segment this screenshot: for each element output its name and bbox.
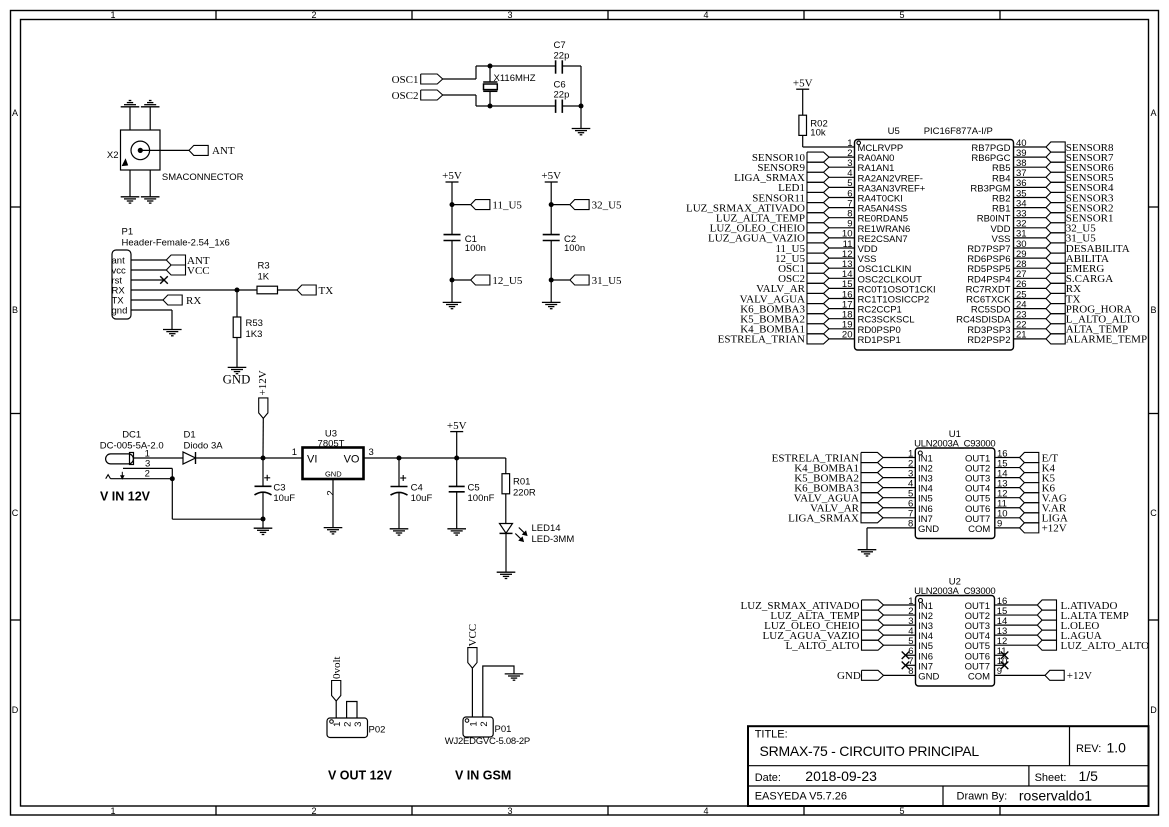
wire P1 ant xyxy=(131,259,166,261)
ground C3 xyxy=(254,528,273,534)
wire P02 pins 2-3 loop xyxy=(347,702,357,719)
port flag VALV_AR (U1 pin 6) xyxy=(810,503,883,515)
title text SRMAX-75 - CIRCUITO PRINCIPAL xyxy=(760,743,980,759)
wire node to R01 xyxy=(457,458,506,474)
U5 title xyxy=(888,126,993,137)
wire U1 pin 1 xyxy=(883,457,915,459)
wire U5 pin 14 xyxy=(829,277,855,279)
svg-text:LIGA_SRMAX: LIGA_SRMAX xyxy=(788,513,859,525)
port flag ABILITA (U5 pin 29) xyxy=(1046,253,1109,265)
wire P1 TX pin xyxy=(131,299,163,301)
port flag L.ALTA TEMP (U2 pin 15) xyxy=(1037,610,1128,622)
wire bottom rail xyxy=(476,105,556,107)
svg-text:10k: 10k xyxy=(810,128,826,139)
wire +5V to node (C1) xyxy=(451,182,453,205)
svg-text:R01: R01 xyxy=(513,476,530,487)
wire U1 pin 7 xyxy=(883,517,915,519)
node C1 bottom xyxy=(450,278,455,283)
svg-text:TITLE:: TITLE: xyxy=(755,729,788,741)
ground GND net flag xyxy=(223,367,251,386)
svg-text:L_ALTO_ALTO: L_ALTO_ALTO xyxy=(786,640,860,652)
wire node to flag 11_U5 xyxy=(452,204,471,206)
power flag +12V (U2 pin 9) xyxy=(1045,670,1092,682)
wire U1 pin 13 xyxy=(995,487,1020,489)
wire U1 pin 2 xyxy=(883,467,915,469)
svg-text:2: 2 xyxy=(325,490,336,495)
wire C4 top xyxy=(398,458,400,487)
wire DC1 pin2 xyxy=(111,478,173,480)
svg-text:REV:: REV: xyxy=(1076,743,1101,755)
wire node to flag 12_U5 xyxy=(452,279,471,281)
node C2 bottom xyxy=(549,278,554,283)
wire U1 pin 11 xyxy=(995,507,1020,509)
wire +5V to R02 xyxy=(802,89,804,115)
svg-text:+5V: +5V xyxy=(541,170,561,182)
svg-text:5: 5 xyxy=(899,806,904,816)
wire U5 pin 13 xyxy=(829,267,855,269)
no-connect X on U2 pin 11 xyxy=(1001,651,1009,659)
svg-text:A: A xyxy=(1150,108,1156,118)
port flag 32_U5 xyxy=(570,199,622,211)
connector P02 body xyxy=(327,718,385,738)
port flag V.AG (U1 pin 12) xyxy=(1020,493,1067,505)
crystal X1 16MHZ xyxy=(483,66,536,106)
svg-text:2: 2 xyxy=(311,806,316,816)
svg-text:1: 1 xyxy=(110,806,115,816)
wire C4 to C5 node xyxy=(399,457,457,459)
svg-text:OSC1: OSC1 xyxy=(392,74,419,86)
svg-text:PIC16F877A-I/P: PIC16F877A-I/P xyxy=(924,126,993,137)
port flag LUZ_OLEO_CHEIO (U2 pin 3) xyxy=(764,620,883,632)
wire U1 pin 15 xyxy=(995,467,1020,469)
Sheet cell xyxy=(1035,768,1099,784)
svg-text:roservaldo1: roservaldo1 xyxy=(1019,787,1092,803)
svg-text:31_U5: 31_U5 xyxy=(592,275,622,287)
svg-text:2: 2 xyxy=(145,468,150,479)
svg-text:+5V: +5V xyxy=(447,420,467,432)
wire P1 gnd xyxy=(131,310,172,329)
node C5 top xyxy=(454,456,459,461)
svg-text:DC-005-5A-2.0: DC-005-5A-2.0 xyxy=(100,440,164,451)
wire C1 top xyxy=(451,205,453,235)
P01 part number xyxy=(445,736,530,747)
wire OSC2 to bottom rail xyxy=(443,95,476,106)
capacitor C3 (polarized) xyxy=(255,475,296,504)
svg-text:Sheet:: Sheet: xyxy=(1035,772,1067,784)
wire bottom return xyxy=(172,518,263,520)
U1 pin numbers xyxy=(908,448,1008,529)
wire U5 pin 11 xyxy=(829,247,855,249)
port flag SENSOR1 (U5 pin 33) xyxy=(1046,213,1113,225)
svg-text:RX: RX xyxy=(186,295,201,307)
svg-text:1: 1 xyxy=(468,721,479,726)
wire U2 pin 3 xyxy=(884,624,916,626)
svg-text:Header-Female-2.54_1x6: Header-Female-2.54_1x6 xyxy=(122,238,230,249)
node C6 right xyxy=(579,104,584,109)
wire U5 pin 32 xyxy=(1014,227,1047,229)
svg-text:GND: GND xyxy=(918,524,939,535)
wire U5 pin 12 xyxy=(829,257,855,259)
port flag ESTRELA_TRIAN (U5 pin 20) xyxy=(718,334,829,346)
wire +5V to node (C2) xyxy=(550,182,552,205)
wire U2 pin 5 xyxy=(884,644,916,646)
wire node to U3 xyxy=(263,457,303,459)
wire U2 pin 9 xyxy=(995,674,1046,676)
svg-text:gnd: gnd xyxy=(112,306,128,317)
V IN 12V text xyxy=(100,490,151,504)
svg-text:Date:: Date: xyxy=(755,772,781,784)
wire right vertical xyxy=(580,66,582,129)
ground U1 xyxy=(858,550,877,556)
power flag 0volt xyxy=(331,656,343,701)
port flag +12V (U1 pin 9) xyxy=(1020,523,1067,535)
wire U5 pin 16 xyxy=(829,298,855,300)
wire U5 pin 29 xyxy=(1014,257,1047,259)
node C4 top xyxy=(397,456,402,461)
svg-text:RD2PSP2: RD2PSP2 xyxy=(967,335,1010,346)
port flag 11_U5 xyxy=(471,199,523,211)
LED14 arrows xyxy=(515,528,527,542)
resistor R02 xyxy=(799,115,828,139)
wire R02 to U5 pin 1 xyxy=(803,136,855,148)
U3 pin1 number xyxy=(292,447,297,458)
wire U1 pin 12 xyxy=(995,497,1020,499)
svg-text:VI: VI xyxy=(307,454,317,466)
node DC1 pin2 junction xyxy=(170,476,175,481)
connector DC1 labels xyxy=(100,429,164,451)
wire OSC1 to top rail xyxy=(443,66,476,79)
wire U5 pin 15 xyxy=(829,287,855,289)
wire U1 pin 9 xyxy=(995,527,1020,529)
wire U5 pin 2 xyxy=(829,156,855,158)
connector P01 body xyxy=(463,717,511,737)
svg-text:22p: 22p xyxy=(554,51,570,62)
wire U2 pin 12 xyxy=(995,644,1038,646)
wire U5 pin 39 xyxy=(1014,156,1047,158)
wire P01 pin1 xyxy=(471,668,473,717)
ground crystal xyxy=(572,129,591,135)
svg-text:3: 3 xyxy=(369,447,374,458)
wire U5 pin 38 xyxy=(1014,166,1047,168)
wire U5 pin 31 xyxy=(1014,237,1047,239)
port flag 32_U5 (U5 pin 32) xyxy=(1046,223,1096,235)
wire U5 pin 10 xyxy=(829,237,855,239)
wire U2 pin 14 xyxy=(995,624,1038,626)
svg-text:12_U5: 12_U5 xyxy=(492,275,522,287)
svg-text:GND: GND xyxy=(918,671,939,682)
svg-text:1K3: 1K3 xyxy=(246,329,263,340)
wire U2 pin 13 xyxy=(995,634,1038,636)
resistor R01 xyxy=(502,474,536,499)
wire node to flag 32_U5 xyxy=(551,204,570,206)
svg-text:1K: 1K xyxy=(258,271,270,282)
port flag OSC1 xyxy=(392,74,443,86)
V IN GSM text xyxy=(455,769,511,783)
svg-text:GND: GND xyxy=(837,670,861,682)
wire U5 pin 21 xyxy=(1014,338,1047,340)
ground P01 xyxy=(505,674,524,680)
svg-text:3: 3 xyxy=(507,10,512,20)
svg-text:C: C xyxy=(1150,508,1157,518)
svg-text:D: D xyxy=(12,705,19,715)
port flag ALARME_TEMP (U5 pin 21) xyxy=(1046,334,1147,346)
svg-text:2: 2 xyxy=(311,10,316,20)
port flag L.AGUA (U2 pin 13) xyxy=(1037,630,1102,642)
wire DC1 pin1 to D1 xyxy=(133,457,183,459)
wire U2 pin 15 xyxy=(995,614,1038,616)
port flag SENSOR2 (U5 pin 34) xyxy=(1046,202,1113,214)
wire U5 pin 17 xyxy=(829,308,855,310)
wire U5 pin 20 xyxy=(829,338,855,340)
port flag ESTRELA_TRIAN (U1 pin 1) xyxy=(772,452,883,464)
svg-text:+12V: +12V xyxy=(1067,670,1092,682)
svg-text:ESTRELA_TRIAN: ESTRELA_TRIAN xyxy=(718,334,805,346)
port flag S.CARGA (U5 pin 27) xyxy=(1046,273,1113,285)
port flag K6 (U1 pin 13) xyxy=(1020,482,1056,494)
wire P1 vcc xyxy=(131,269,166,271)
wire U2 pin 10 stub xyxy=(995,664,1005,666)
svg-text:A: A xyxy=(12,108,18,118)
wire D1 to node xyxy=(196,457,264,459)
port flag SENSOR4 (U5 pin 36) xyxy=(1046,182,1114,194)
ground LED14 xyxy=(497,572,516,578)
U1 title xyxy=(914,429,995,450)
wire DC1 pin2-3 down xyxy=(171,468,173,519)
node RX junction xyxy=(235,288,240,293)
svg-text:GND: GND xyxy=(223,373,251,387)
port flag LED1 (U5 pin 5) xyxy=(778,182,829,194)
svg-text:100n: 100n xyxy=(564,243,585,254)
port flag K4_BOMBA1 (U5 pin 19) xyxy=(740,324,829,336)
port flag RX (U5 pin 26) xyxy=(1046,283,1081,295)
wire U5 pin 37 xyxy=(1014,176,1047,178)
port flag K5 (U1 pin 14) xyxy=(1020,472,1056,484)
port flag SENSOR10 (U5 pin 2) xyxy=(752,152,829,164)
port flag VALV_AGUA (U1 pin 5) xyxy=(794,493,883,505)
power flag +5V above R02 xyxy=(793,77,813,89)
port flag SENSOR9 (U5 pin 3) xyxy=(757,162,829,174)
resistor R3 xyxy=(257,260,278,294)
node C2 top xyxy=(549,202,554,207)
wire U5 pin 26 xyxy=(1014,287,1047,289)
wire LED to ground xyxy=(505,533,507,572)
wire top rail right xyxy=(562,65,581,67)
capacitor C2 xyxy=(543,234,585,254)
U5 pin names xyxy=(858,143,1012,346)
port flag SENSOR5 (U5 pin 37) xyxy=(1046,172,1114,184)
svg-text:GND: GND xyxy=(325,469,342,478)
port flag ANT (P1) xyxy=(166,255,210,267)
port flag 12_U5 (U5 pin 12) xyxy=(775,253,829,265)
svg-text:1: 1 xyxy=(110,10,115,20)
svg-text:3: 3 xyxy=(507,806,512,816)
resistor R53 xyxy=(233,317,263,340)
wire P1 RX row xyxy=(131,289,257,291)
svg-text:RD1PSP1: RD1PSP1 xyxy=(858,335,901,346)
port flag K6_BOMBA3 (U1 pin 4) xyxy=(794,482,883,494)
port flag LUZ_SRMAX_ATIVADO (U2 pin 1) xyxy=(741,600,884,612)
V OUT 12V text xyxy=(328,769,393,783)
wire U5 pin 27 xyxy=(1014,277,1047,279)
wire U2 pin 6 stub xyxy=(906,654,916,656)
DC1 pin numbers xyxy=(145,448,151,479)
port flag 12_U5 xyxy=(471,275,523,287)
wire +5V stub xyxy=(456,432,458,458)
wire X2 top left pin xyxy=(129,107,131,130)
svg-text:COM: COM xyxy=(968,671,990,682)
wire C2 top xyxy=(550,205,552,235)
port flag PROG_HORA (U5 pin 24) xyxy=(1046,303,1132,315)
port flag K4_BOMBA1 (U1 pin 2) xyxy=(794,462,883,474)
U2 pin numbers xyxy=(908,596,1007,677)
svg-text:1: 1 xyxy=(292,447,297,458)
port flag ANT (X2) xyxy=(189,145,235,157)
port flag VALV_AR (U5 pin 15) xyxy=(756,283,829,295)
ground C1 xyxy=(443,302,462,308)
svg-text:D: D xyxy=(1150,705,1157,715)
wire U5 pin 9 xyxy=(829,227,855,229)
Drawn By cell xyxy=(957,787,1093,803)
wire DC1 pin3 xyxy=(123,467,172,469)
port flag OSC1 (U5 pin 13) xyxy=(778,263,829,275)
svg-text:1/5: 1/5 xyxy=(1079,768,1099,784)
wire U5 pin 4 xyxy=(829,176,855,178)
P02 pin numbers xyxy=(332,722,364,727)
port flag LUZ_ALTA_TEMP (U2 pin 2) xyxy=(770,610,883,622)
svg-text:1.0: 1.0 xyxy=(1107,740,1127,756)
node C1 top xyxy=(450,202,455,207)
svg-text:100nF: 100nF xyxy=(468,493,495,504)
U2 title xyxy=(914,577,995,598)
wire U5 pin 28 xyxy=(1014,267,1047,269)
connector P1 labels xyxy=(122,227,230,249)
ground P1 xyxy=(163,330,182,336)
svg-text:V IN GSM: V IN GSM xyxy=(455,769,511,783)
wire U5 pin 36 xyxy=(1014,186,1047,188)
wire node to flag 31_U5 xyxy=(551,279,570,281)
no-connect X on U2 pin 7 xyxy=(902,662,910,670)
U5 pin numbers xyxy=(842,138,1027,341)
svg-text:3: 3 xyxy=(353,722,364,727)
ground X2 top right (inverted) xyxy=(141,101,160,107)
U3 pin2 number xyxy=(325,490,336,495)
svg-text:+5V: +5V xyxy=(793,77,813,89)
capacitor C4 (polarized) xyxy=(391,475,433,504)
port flag SENSOR8 (U5 pin 40) xyxy=(1046,142,1114,154)
svg-text:ULN2003A_C93000: ULN2003A_C93000 xyxy=(914,586,995,597)
wire X2 bottom right pin xyxy=(149,170,151,197)
wire U5 pin 30 xyxy=(1014,247,1047,249)
svg-text:+12V: +12V xyxy=(1042,523,1067,535)
title block TITLE text xyxy=(755,729,788,741)
port flag LUZ_ALTA_TEMP (U5 pin 8) xyxy=(716,213,829,225)
wire P1 rst xyxy=(131,279,164,281)
svg-text:22p: 22p xyxy=(554,90,570,101)
svg-text:ALARME_TEMP: ALARME_TEMP xyxy=(1066,334,1147,346)
wire U5 pin 35 xyxy=(1014,197,1047,199)
port flag LUZ_SRMAX_ATIVADO (U5 pin 7) xyxy=(686,202,829,214)
wire U1 pin 14 xyxy=(995,477,1020,479)
svg-text:EASYEDA V5.7.26: EASYEDA V5.7.26 xyxy=(755,791,847,803)
power flag +5V (regulator out) xyxy=(447,420,467,432)
svg-text:OSC2: OSC2 xyxy=(392,90,419,102)
svg-text:R3: R3 xyxy=(258,260,270,271)
svg-text:Diodo 3A: Diodo 3A xyxy=(184,440,224,451)
wire U5 pin 6 xyxy=(829,197,855,199)
ground C5 xyxy=(447,529,466,535)
wire R01 to LED xyxy=(505,494,507,524)
transistor-array U1 body xyxy=(915,448,995,539)
no-connect X on rst xyxy=(160,276,168,284)
svg-text:LED-3MM: LED-3MM xyxy=(532,534,575,545)
wire U2 pin 11 stub xyxy=(995,654,1005,656)
port flag LUZ_OLEO_CHEIO (U5 pin 9) xyxy=(710,223,829,235)
wire U3 pin2 xyxy=(332,479,334,527)
svg-text:WJ2EDGVC-5.08-2P: WJ2EDGVC-5.08-2P xyxy=(445,736,530,747)
connector P1 body xyxy=(112,250,131,319)
port flag TX xyxy=(297,285,333,297)
port flag K5_BOMBA2 (U5 pin 18) xyxy=(740,314,829,326)
svg-text:ANT: ANT xyxy=(212,145,235,157)
svg-text:100n: 100n xyxy=(465,243,486,254)
wire U5 pin 19 xyxy=(829,328,855,330)
wire +12V flag down xyxy=(262,418,264,458)
no-connect X on U2 pin 10 xyxy=(1001,662,1009,670)
wire P01 pin2 to ground xyxy=(483,666,514,717)
svg-text:VO: VO xyxy=(344,454,360,466)
svg-text:P01: P01 xyxy=(495,724,512,735)
wire U3 VO right xyxy=(364,457,400,459)
capacitor C5 xyxy=(449,483,495,504)
svg-text:220R: 220R xyxy=(513,487,536,498)
port flag L.OLEO (U2 pin 14) xyxy=(1037,620,1099,632)
wire U5 pin 25 xyxy=(1014,298,1047,300)
capacitor C6 xyxy=(554,79,570,113)
wire R3 to TX flag xyxy=(278,289,298,291)
EASYEDA version text xyxy=(755,791,847,803)
svg-text:LUZ_ALTO_ALTO: LUZ_ALTO_ALTO xyxy=(1061,640,1150,652)
U3 pin3 number xyxy=(369,447,374,458)
port flag EMERG (U5 pin 28) xyxy=(1046,263,1104,275)
port flag 31_U5 xyxy=(570,275,622,287)
ground C4 xyxy=(390,529,409,535)
wire X2 top right pin xyxy=(149,107,151,130)
svg-text:B: B xyxy=(1150,305,1156,315)
svg-text:P1: P1 xyxy=(122,227,134,238)
regulator U3 7805T xyxy=(303,428,364,479)
port flag RX xyxy=(163,295,201,307)
port flag V.AR (U1 pin 11) xyxy=(1020,503,1067,515)
svg-text:10uF: 10uF xyxy=(273,493,295,504)
svg-text:C: C xyxy=(12,508,19,518)
svg-text:C7: C7 xyxy=(554,40,566,51)
port flag OSC2 xyxy=(392,90,443,102)
node +12V junction xyxy=(261,456,266,461)
port flag OSC2 (U5 pin 14) xyxy=(778,273,829,285)
svg-text:SMACONNECTOR: SMACONNECTOR xyxy=(162,172,244,183)
wire U1 pin 6 xyxy=(883,507,915,509)
port flag L_ALTO_ALTO (U2 pin 5) xyxy=(786,640,884,652)
wire U2 pin 1 xyxy=(884,604,916,606)
wire C2 bottom xyxy=(550,241,552,281)
svg-text:R53: R53 xyxy=(246,318,263,329)
wire U2 pin 8 xyxy=(884,674,916,676)
wire R53 top xyxy=(236,290,238,317)
wire U1 GND pin 8 xyxy=(867,528,915,550)
port flag LIGA (U1 pin 10) xyxy=(1020,513,1068,525)
P01 pin numbers xyxy=(468,721,489,726)
svg-text:32_U5: 32_U5 xyxy=(592,199,622,211)
